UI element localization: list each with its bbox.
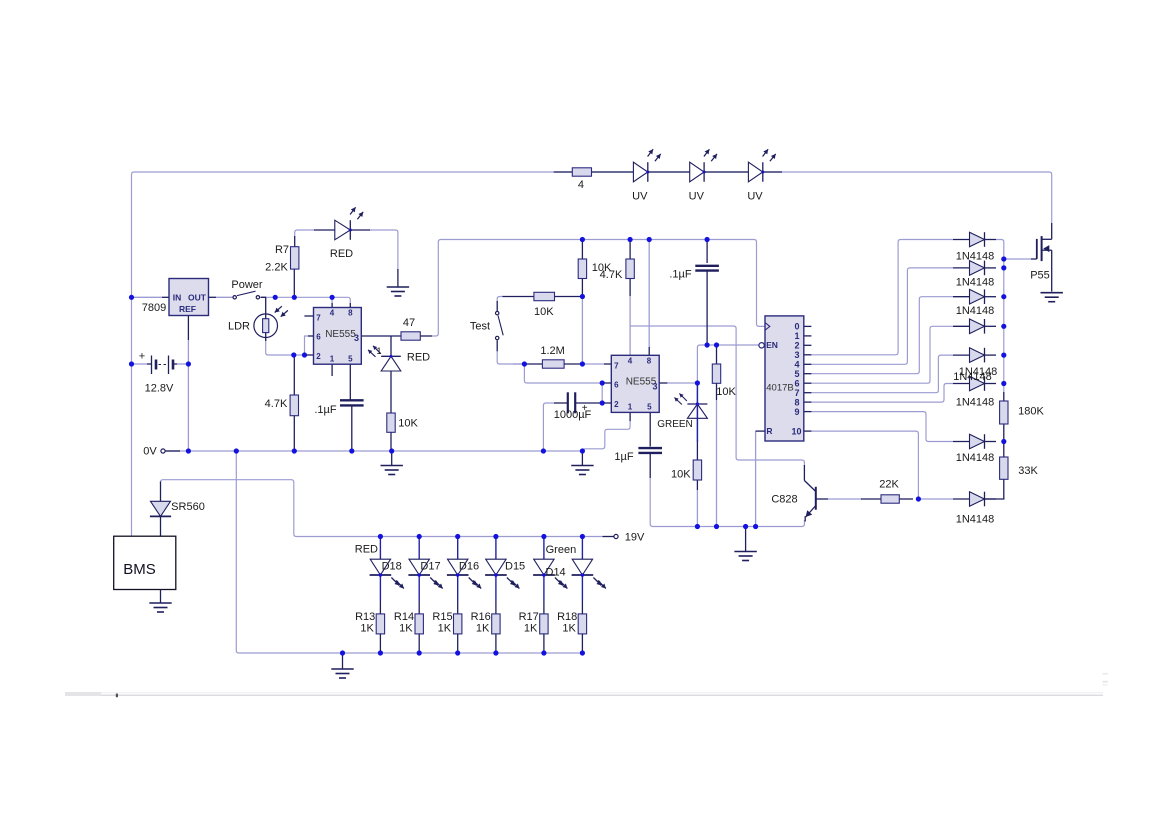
svg-text:NE555: NE555 [325,329,356,340]
svg-text:1K: 1K [360,623,374,635]
svg-text:4.7K: 4.7K [600,269,623,281]
svg-text:1.2M: 1.2M [540,345,564,357]
svg-text:4: 4 [578,179,584,191]
svg-text:D18: D18 [382,561,402,573]
svg-text:BMS: BMS [123,561,156,578]
svg-text:5: 5 [348,355,353,364]
svg-text:D15: D15 [505,561,525,573]
svg-text:10K: 10K [671,469,691,481]
svg-text:IN: IN [173,293,182,303]
svg-text:33K: 33K [1018,465,1038,477]
svg-text:RED: RED [407,352,430,364]
svg-text:12.8V: 12.8V [145,383,174,395]
svg-text:1K: 1K [399,623,413,635]
svg-text:Power: Power [231,279,263,291]
svg-text:RED: RED [355,544,378,556]
svg-text:RED: RED [330,248,353,260]
svg-text:R7: R7 [275,244,289,256]
svg-text:R14: R14 [394,611,414,623]
svg-text:UV: UV [747,191,763,203]
svg-text:7809: 7809 [142,302,166,314]
svg-text:2.2K: 2.2K [265,262,288,274]
svg-text:.1µF: .1µF [669,269,692,281]
svg-text:EN: EN [766,340,778,350]
svg-text:Green: Green [546,544,577,556]
svg-text:LDR: LDR [228,321,250,333]
svg-text:2: 2 [316,352,321,361]
svg-text:+: + [139,351,145,363]
svg-text:REF: REF [179,304,196,314]
svg-text:R16: R16 [471,611,491,623]
svg-text:8: 8 [647,357,652,366]
svg-text:1N4148: 1N4148 [956,277,995,289]
svg-text:GREEN: GREEN [657,419,693,430]
svg-text:P55: P55 [1030,270,1050,282]
svg-text:9: 9 [794,407,799,417]
svg-text:R17: R17 [519,611,539,623]
svg-text:4.7K: 4.7K [265,398,288,410]
svg-text:3: 3 [652,382,657,392]
svg-text:1K: 1K [562,623,576,635]
svg-text:19V: 19V [625,532,645,544]
svg-text:1K: 1K [438,623,452,635]
svg-text:C828: C828 [771,494,797,506]
svg-text:1: 1 [628,403,633,412]
svg-text:7: 7 [316,314,321,323]
svg-text:R15: R15 [432,611,452,623]
svg-text:1N4148: 1N4148 [953,371,992,383]
svg-text:6: 6 [614,381,619,390]
svg-text:OUT: OUT [188,293,207,303]
svg-text:22K: 22K [879,479,899,491]
svg-text:10: 10 [791,427,801,437]
svg-text:47: 47 [403,317,415,329]
svg-text:UV: UV [689,191,705,203]
svg-text:6: 6 [316,333,321,342]
svg-text:Test: Test [470,321,490,333]
svg-text:8: 8 [348,309,353,318]
svg-text:.1µF: .1µF [314,404,337,416]
svg-text:4: 4 [330,309,335,318]
svg-text:10K: 10K [716,386,736,398]
svg-text:R: R [766,426,772,436]
svg-text:D14: D14 [546,567,566,579]
svg-text:1: 1 [330,355,335,364]
svg-text:7: 7 [614,362,619,371]
svg-text:UV: UV [632,191,648,203]
svg-text:1µF: 1µF [614,451,633,463]
svg-text:1N4148: 1N4148 [956,452,995,464]
svg-text:180K: 180K [1018,406,1044,418]
svg-text:R13: R13 [355,611,375,623]
svg-text:3: 3 [354,333,359,343]
svg-text:0V: 0V [143,446,157,458]
svg-text:5: 5 [647,403,652,412]
svg-text:D17: D17 [420,561,440,573]
svg-text:2: 2 [614,400,619,409]
svg-text:1N4148: 1N4148 [956,305,995,317]
svg-text:4: 4 [628,357,633,366]
svg-text:1N4148: 1N4148 [956,251,995,263]
svg-text:+: + [582,403,588,414]
svg-text:1N4148: 1N4148 [956,397,995,409]
svg-text:D16: D16 [459,561,479,573]
svg-text:10K: 10K [398,418,418,430]
svg-text:R18: R18 [557,611,577,623]
svg-text:4017B: 4017B [766,382,793,393]
svg-text:1K: 1K [524,623,538,635]
svg-text:10K: 10K [534,306,554,318]
svg-text:SR560: SR560 [171,501,205,513]
svg-text:1N4148: 1N4148 [956,514,995,526]
svg-text:1: 1 [376,346,381,356]
svg-text:1K: 1K [476,623,490,635]
